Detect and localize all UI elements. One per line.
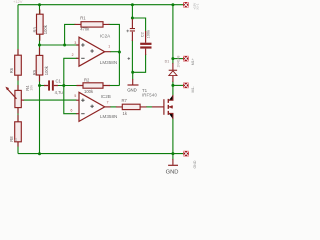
svg-text:LM358N: LM358N xyxy=(100,114,117,119)
IC2 power pin marker xyxy=(128,57,131,60)
resistor R7 xyxy=(116,98,147,116)
svg-text:1N4148: 1N4148 xyxy=(177,56,181,68)
svg-text:4,7u: 4,7u xyxy=(55,90,64,95)
resistor R5 xyxy=(32,48,49,82)
svg-text:7: 7 xyxy=(107,100,109,104)
op-amp IC2B xyxy=(71,92,118,121)
junction bottom rail T1 source xyxy=(171,152,174,155)
wire C1 row left xyxy=(40,85,46,87)
potentiometer R4 xyxy=(5,85,33,114)
wire D1/T1 column from rail xyxy=(172,5,174,64)
resistor R1 xyxy=(75,15,110,31)
wire node A row to IC2A pin3 xyxy=(40,44,77,46)
svg-text:M1+: M1+ xyxy=(191,58,195,65)
junction C1 left ground node xyxy=(38,84,41,87)
wire bottom GND rail xyxy=(18,153,183,155)
wire C2 bottom to gnd node xyxy=(133,54,146,72)
transistor T1 MOSFET xyxy=(142,88,173,119)
diode D1 xyxy=(165,56,181,82)
wire R2 right to output node xyxy=(110,85,120,87)
svg-text:R5: R5 xyxy=(32,69,37,75)
svg-text:R6: R6 xyxy=(9,67,14,73)
svg-text:100k: 100k xyxy=(44,65,49,75)
junction IC2A output node xyxy=(118,51,121,54)
wire +12V top rail xyxy=(18,4,183,6)
junction M1- node xyxy=(171,84,174,87)
wire C2 branch top xyxy=(132,18,145,37)
svg-text:R3: R3 xyxy=(32,26,37,32)
svg-text:R2: R2 xyxy=(84,77,90,82)
svg-text:100n: 100n xyxy=(147,30,151,38)
svg-text:470k: 470k xyxy=(80,27,90,32)
svg-text:GND: GND xyxy=(193,160,197,168)
svg-text:IRF540: IRF540 xyxy=(142,92,158,97)
svg-text:5: 5 xyxy=(74,94,76,98)
junction C branch split xyxy=(131,17,134,20)
junction top rail C column xyxy=(131,3,134,6)
wire D1 bottom to M1- node xyxy=(172,81,174,96)
wire R7 to T1 gate xyxy=(146,106,152,108)
svg-text:3: 3 xyxy=(74,41,76,45)
junction node A at R3/R5 xyxy=(38,44,41,47)
junction node A feedback xyxy=(63,44,66,47)
wire pot wiper to IC2B pin5 xyxy=(23,99,77,101)
junction gnd1 node xyxy=(131,71,134,74)
svg-text:+12V: +12V xyxy=(13,0,23,4)
svg-text:GND: GND xyxy=(127,87,137,92)
svg-text:X2-1: X2-1 xyxy=(196,3,200,9)
svg-text:C2: C2 xyxy=(139,31,144,37)
pad M1- xyxy=(183,83,195,93)
svg-text:IC2A: IC2A xyxy=(100,33,111,38)
wire gnd2 stem xyxy=(172,154,174,160)
capacitor C1 xyxy=(44,78,63,95)
capacitor C2 xyxy=(139,30,151,55)
svg-text:R1: R1 xyxy=(80,15,86,20)
junction C1 right / pin6 node xyxy=(62,84,65,87)
svg-text:R7: R7 xyxy=(122,98,128,103)
ground symbol GND2 xyxy=(166,159,179,175)
junction bottom rail R5 column xyxy=(38,152,41,155)
svg-text:GND: GND xyxy=(166,169,179,175)
resistor R3 xyxy=(32,10,48,41)
svg-text:LM358N: LM358N xyxy=(100,60,117,65)
wire R1 right to output node xyxy=(109,24,120,85)
svg-text:1: 1 xyxy=(108,45,110,49)
junction M1+ node xyxy=(171,57,174,60)
wire left column +12V to R6 to R4 to R8 to GND xyxy=(17,5,19,154)
wire R1 feedback row xyxy=(65,24,76,45)
svg-text:C1: C1 xyxy=(56,78,62,83)
op-amp IC2A xyxy=(72,33,118,66)
pad X2-1 +12V xyxy=(183,2,200,10)
svg-text:2: 2 xyxy=(72,53,74,57)
wire C column from rail xyxy=(131,5,133,19)
svg-text:IC2B: IC2B xyxy=(101,94,111,99)
svg-text:1k: 1k xyxy=(14,138,18,142)
wire C1 to R2 xyxy=(58,85,78,87)
wire IC2A output xyxy=(110,51,119,53)
resistor R8 xyxy=(9,115,21,147)
svg-text:100k: 100k xyxy=(43,24,48,34)
resistor R2 xyxy=(77,77,111,94)
wire M1+ row xyxy=(173,58,183,60)
wire T1 source down xyxy=(172,118,174,154)
pad M1+ xyxy=(183,56,195,65)
wire M1- row xyxy=(173,84,183,86)
wire C3 lower lead to gnd node xyxy=(131,40,133,72)
svg-text:6: 6 xyxy=(71,109,73,113)
svg-text:100k: 100k xyxy=(84,89,94,94)
svg-text:M1-: M1- xyxy=(191,86,195,93)
junction top rail D1 column xyxy=(171,3,174,6)
svg-text:10k: 10k xyxy=(29,85,33,91)
wire R3/R5 column xyxy=(39,5,41,154)
junction top rail R3 xyxy=(38,3,41,6)
capacitor C3 polarized xyxy=(126,19,135,41)
wire IC2A pin2 to vertical xyxy=(64,58,78,113)
svg-text:D1: D1 xyxy=(165,59,170,63)
pad GND xyxy=(183,151,197,169)
ground symbol GND1 xyxy=(127,79,138,92)
wire IC2B output to R7 xyxy=(110,106,117,108)
resistor R6 xyxy=(9,49,21,81)
wire gnd1 stem xyxy=(132,72,134,79)
